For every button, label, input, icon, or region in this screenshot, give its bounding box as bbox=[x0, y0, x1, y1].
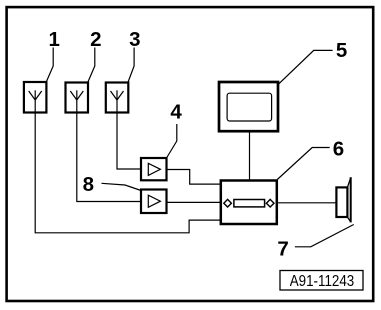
wire antenna 2 to amplifier 8 bbox=[77, 113, 141, 202]
svg-text:6: 6 bbox=[333, 137, 344, 160]
antenna 2 symbol bbox=[70, 90, 83, 112]
svg-text:7: 7 bbox=[277, 237, 288, 260]
leader for 4 bbox=[167, 124, 177, 158]
wire antenna 1 to radio bbox=[35, 113, 221, 233]
wire antenna 3 to amplifier 4 bbox=[117, 113, 141, 169]
amplifier 4 triangle bbox=[148, 163, 160, 175]
drawing number box bbox=[280, 271, 363, 291]
antenna 1 symbol bbox=[29, 90, 42, 112]
speaker 7 cone bbox=[347, 177, 350, 222]
leader for 1 bbox=[46, 48, 53, 84]
wire monitor to radio bbox=[249, 131, 251, 180]
svg-text:4: 4 bbox=[170, 101, 182, 124]
antenna 3 box bbox=[106, 83, 129, 113]
radio slot bbox=[234, 200, 265, 207]
monitor 5 screen bbox=[227, 93, 272, 121]
monitor 5 box bbox=[219, 82, 278, 131]
radio right diamond bbox=[266, 199, 274, 207]
svg-text:2: 2 bbox=[90, 28, 101, 51]
amplifier 8 triangle bbox=[148, 195, 160, 207]
antenna 2 box bbox=[66, 83, 89, 113]
svg-text:A91-11243: A91-11243 bbox=[290, 273, 355, 290]
speaker 7 body bbox=[336, 187, 347, 217]
svg-text:3: 3 bbox=[129, 28, 140, 51]
antenna 1 box bbox=[24, 82, 47, 113]
radio left diamond bbox=[224, 199, 232, 207]
svg-text:5: 5 bbox=[336, 39, 347, 62]
leader for 2 bbox=[88, 48, 95, 84]
radio unit 6 box bbox=[221, 181, 277, 225]
wire radio to speaker bbox=[277, 202, 336, 204]
leader for 8 bbox=[102, 183, 142, 190]
amplifier 8 box bbox=[141, 190, 167, 214]
svg-text:8: 8 bbox=[83, 173, 94, 196]
leader for 3 bbox=[128, 48, 134, 84]
antenna 3 symbol bbox=[111, 90, 124, 112]
wire amplifier 4 to radio bbox=[167, 170, 222, 185]
wire amplifier 8 to radio bbox=[167, 201, 222, 203]
leader for 7 bbox=[295, 225, 354, 247]
leader for 6 bbox=[277, 148, 329, 180]
leader for 5 bbox=[279, 50, 333, 84]
svg-text:1: 1 bbox=[48, 28, 59, 51]
amplifier 4 box bbox=[141, 158, 167, 180]
